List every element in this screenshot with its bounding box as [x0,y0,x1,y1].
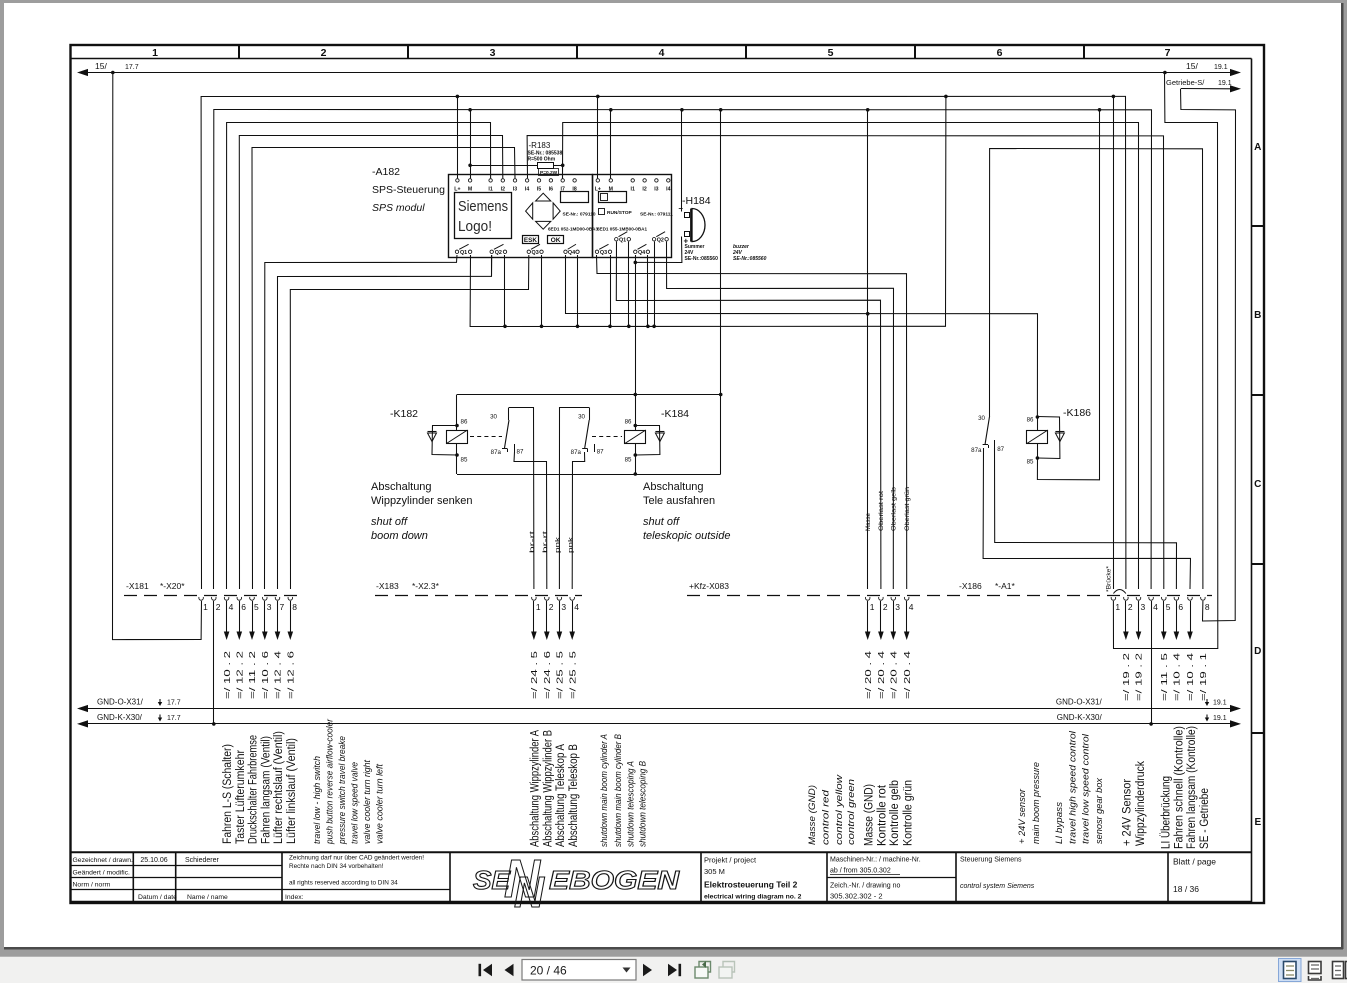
svg-text:SE-Nr.:085560: SE-Nr.:085560 [685,256,719,262]
X186 wire arrows down [1125,601,1127,632]
svg-text:Abschaltung Wippzylinder A: Abschaltung Wippzylinder A [530,730,542,847]
svg-text:=/ 10 . 2: =/ 10 . 2 [223,651,232,699]
svg-text:4: 4 [229,602,234,612]
svg-text:30: 30 [978,415,985,422]
wire K186 87 to X186:6 [995,448,1177,589]
toolbar previous page button [505,964,514,976]
terminal X183:4 [570,597,575,600]
wire L+2 pin riser [597,96,599,178]
svg-text:Siemens: Siemens [458,199,508,215]
svg-text:Kontrolle grün: Kontrolle grün [902,780,914,846]
svg-text:control system Siemens: control system Siemens [960,883,1035,890]
wire Masse from M bus to X083:1 [867,110,869,589]
node Masse drop [866,312,870,316]
svg-text:Oberlast rot: Oberlast rot [878,491,885,531]
toolbar first page button [479,964,482,976]
svg-text:Index:: Index: [285,894,304,901]
node X186:1 drop [1112,95,1116,99]
svg-text:Oberlast gelb: Oberlast gelb [890,486,897,531]
svg-text:Abschaltung Wippzylinder B: Abschaltung Wippzylinder B [542,730,554,847]
svg-text:E: E [1254,817,1261,828]
terminal X186:4 [1149,597,1154,600]
OK button [548,236,564,244]
toolbar background [0,950,1347,957]
node L+ module1 [456,95,460,99]
svg-text:I2: I2 [642,187,646,193]
toolbar last page button [668,964,677,976]
svg-text:SE - Getriebe: SE - Getriebe [1199,788,1211,849]
svg-text:I1: I1 [631,187,635,193]
wire bus I4 to X186:5 [527,136,1164,590]
module2 output Q1 [615,238,618,241]
wire L+1 pin riser [457,96,459,178]
relay rails [457,394,721,396]
svg-text:Norm / norm: Norm / norm [73,882,111,889]
PLC module2 top pins L+ M I1-I4 [596,179,599,182]
terminal X186:8 [1201,597,1206,600]
wire X181:6 to input I2 [239,136,503,590]
svg-text:=/ 20 . 4: =/ 20 . 4 [903,650,912,699]
svg-text:=/ 24 . 5: =/ 24 . 5 [530,650,539,699]
X183 wire arrows down [533,601,535,632]
svg-text:6: 6 [997,47,1003,59]
wire Q4a to Masse bus [566,255,1038,417]
svg-text:LI Überbrückung: LI Überbrückung [1161,776,1173,849]
terminal X181:4 [224,597,229,600]
terminal X181:5 [250,597,255,600]
svg-text:Zeich.-Nr. / drawing no: Zeich.-Nr. / drawing no [830,883,901,890]
svg-text:30: 30 [578,414,585,421]
svg-text:Abschaltung: Abschaltung [643,481,704,493]
page layout two-up [1333,962,1344,979]
toolbar previous view button [695,961,711,978]
svg-text:Datum / date: Datum / date [138,894,177,901]
svg-text:pnk: pnk [555,536,562,553]
svg-text:-A182: -A182 [372,166,400,178]
wire X181:5 to input I3 [252,148,515,590]
wire Q1b to 0V collector bus start [470,96,946,326]
relay K184 coil [625,431,646,444]
svg-text:5: 5 [828,47,834,59]
wire M2 pin riser [610,110,612,179]
svg-text:5: 5 [1166,602,1171,612]
svg-text:shutdown main boom cylinder A: shutdown main boom cylinder A [599,734,609,847]
terminal X186:5 [1162,597,1167,600]
svg-text:Gezeichnet / drawn.: Gezeichnet / drawn. [73,857,134,864]
diode K184 [635,426,660,456]
svg-text:I5: I5 [537,187,541,193]
svg-text:Fahren langsam (Kontrolle): Fahren langsam (Kontrolle) [1186,726,1198,849]
svg-text:travel low speed control: travel low speed control [1081,733,1091,844]
diode K186 [1037,417,1060,459]
node L+ riser x946 [944,95,948,99]
wire GND-K-X30 rail [88,723,1233,725]
svg-text:shut off: shut off [371,516,408,528]
bridge X186 1-2 [1113,590,1126,594]
frame outer border [71,45,1265,903]
svg-text:Lüfter linkslauf (Ventil): Lüfter linkslauf (Ventil) [286,738,298,844]
wire GND-O-X31 rail [88,708,1233,710]
svg-text:boom down: boom down [371,530,428,542]
svg-text:30: 30 [490,414,497,421]
svg-text:Steuerung Siemens: Steuerung Siemens [960,857,1022,864]
svg-text:=/ 24 . 6: =/ 24 . 6 [543,651,552,699]
svg-text:Lüfter rechtslauf (Ventil): Lüfter rechtslauf (Ventil) [273,731,285,844]
wire K184 87a to X183:4 [572,452,585,589]
svg-text:Wippzylinderdruck: Wippzylinderdruck [1135,761,1147,846]
buzzer H184 symbol [692,209,705,242]
svg-text:305.302.302 - 2: 305.302.302 - 2 [830,892,883,901]
svg-text:valve cooler turn left: valve cooler turn left [375,764,385,844]
wire I7 pin riser [562,165,564,178]
svg-text:Q2: Q2 [495,250,502,256]
svg-text:shutdown main boom cylinder B: shutdown main boom cylinder B [613,734,623,847]
wire module2 Q4a down to relay rail and K184 coil [635,255,637,474]
svg-text:=/ 12 . 6: =/ 12 . 6 [287,651,296,699]
svg-text:=/ 10 . 4: =/ 10 . 4 [1186,652,1195,701]
PLC module1 top pins L+ M I1-I8 [456,179,459,182]
wire Q3b to collector [541,255,543,326]
module1 output Q1 [455,250,458,253]
title block grid [71,851,1252,853]
svg-text:D: D [1254,646,1261,657]
svg-text:Abschaltung Teleskop A: Abschaltung Teleskop A [555,744,567,847]
svg-text:3: 3 [895,602,900,612]
svg-text:I6: I6 [549,187,553,193]
svg-text:*-X20*: *-X20* [160,581,185,591]
terminal X083:2 [879,597,884,600]
svg-text:3: 3 [490,47,496,59]
svg-text:Logo!: Logo! [458,219,492,235]
svg-text:85: 85 [625,457,632,464]
svg-text:87a: 87a [491,449,502,456]
module1 output Q3 [527,250,530,253]
svg-text:teleskopic outside: teleskopic outside [643,530,730,542]
svg-text:GND-K-X30/: GND-K-X30/ [1057,713,1103,722]
svg-text:87: 87 [997,446,1004,453]
svg-text:I3: I3 [654,187,658,193]
terminal X181:8 [288,597,293,600]
Sennebogen logo [473,849,680,917]
toolbar page number combo [522,960,636,981]
svg-text:electrical wiring diagram no.: electrical wiring diagram no. 2 [704,894,802,901]
svg-text:A: A [1254,142,1261,153]
svg-text:1: 1 [152,47,158,59]
svg-text:SE-Nr.: 079111: SE-Nr.: 079111 [640,212,673,218]
svg-text:1: 1 [536,602,541,612]
keypad arrows [536,193,551,201]
svg-text:Maschinen-Nr.: / machine-Nr.: Maschinen-Nr.: / machine-Nr. [830,857,921,864]
svg-text:=/ 25 . 5: =/ 25 . 5 [568,650,577,699]
svg-text:305 M: 305 M [704,867,725,876]
terminal X183:3 [557,597,562,600]
wire M1 pin riser [470,110,472,179]
svg-text:control green: control green [846,779,856,845]
module1 display window [561,192,589,203]
wire module2 Q4b to collector [647,255,649,326]
svg-text:*Brücke*: *Brücke* [1106,565,1113,592]
svg-text:valve cooler turn right: valve cooler turn right [362,760,372,844]
Siemens Logo! label box [455,193,512,239]
svg-text:I2: I2 [501,187,505,193]
svg-text:17.7: 17.7 [125,64,139,71]
svg-text:-R183: -R183 [529,141,551,150]
svg-text:Oberlast grün: Oberlast grün [904,486,911,531]
wire bus K186 contact 30 to X186:8 [990,149,1203,590]
module2 output Q2 [652,238,655,241]
svg-text:Fahren schnell (Kontrolle): Fahren schnell (Kontrolle) [1174,726,1186,849]
svg-text:17.7: 17.7 [167,700,181,707]
svg-text:+ 24V Sensor: + 24V Sensor [1121,779,1133,846]
svg-text:push button reverse airflow-co: push button reverse airflow-cooler [324,718,334,845]
svg-text:OK: OK [551,237,561,244]
node H184+/Q4 junction [634,261,638,265]
terminal X083:3 [891,597,896,600]
wire module2 Q2b to Oberlast gelb bus [667,242,894,590]
svg-text:*-A1*: *-A1* [995,581,1016,591]
resistor R183 body [470,165,538,167]
svg-text:control red: control red [821,789,831,845]
wire module2 Q3a to Oberlast gruen bus [597,255,907,589]
svg-text:6ED1 055-1MB00-0BA1: 6ED1 055-1MB00-0BA1 [597,227,647,232]
svg-text:+ 24V sensor: + 24V sensor [1017,788,1027,844]
svg-text:-X183: -X183 [376,581,399,591]
svg-text:8: 8 [292,602,297,612]
wire X186:4 to GND rail [1151,601,1153,724]
svg-text:Druckschalter Fahrbremse: Druckschalter Fahrbremse [248,735,260,844]
contact K182 (30/87a/87) [509,408,534,590]
svg-text:6: 6 [1178,602,1183,612]
wire X181:3 to output Q1a [265,255,458,589]
wire Q2b to collector [504,255,506,326]
svg-text:17.7: 17.7 [167,715,181,722]
terminal X181:2 [211,597,216,600]
relay K182 coil [456,395,458,475]
wire module2 Q1b to collector [628,242,630,327]
svg-text:Abschaltung Teleskop B: Abschaltung Teleskop B [568,744,580,847]
svg-text:main boom pressure: main boom pressure [1031,762,1041,844]
wire +15 feed down right side to X186:1 [1113,73,1217,649]
page layout single (active) [1279,959,1302,982]
svg-text:=/ 19 . 1: =/ 19 . 1 [1199,653,1208,701]
node M module2 [609,108,613,112]
svg-text:SE-Nr.: 079110: SE-Nr.: 079110 [563,212,596,218]
svg-text:Schiederer: Schiederer [185,857,220,864]
svg-text:N: N [514,868,545,917]
terminal X186:7 [1188,597,1193,600]
svg-text:19.1: 19.1 [1213,700,1227,707]
svg-text:pnk: pnk [568,536,575,553]
svg-text:4: 4 [574,602,579,612]
svg-text:Q1: Q1 [619,237,626,243]
svg-text:3: 3 [1141,602,1146,612]
svg-text:senosr gear box: senosr gear box [1094,777,1104,844]
svg-text:L+: L+ [454,187,460,193]
svg-text:85: 85 [461,457,468,464]
wire H184 minus to M bus [681,110,683,212]
terminal X181:3 [263,597,268,600]
svg-text:Q3: Q3 [532,250,539,256]
node L+ module2 [596,95,600,99]
svg-text:Getriebe-S/: Getriebe-S/ [1166,78,1205,87]
svg-text:Fahren langsam (Ventil): Fahren langsam (Ventil) [260,736,272,844]
svg-text:I4: I4 [666,187,670,193]
relay K186 coil [1036,415,1040,419]
svg-text:all rights reserved according: all rights reserved according to DIN 34 [289,880,398,887]
svg-text:6ED1 052-1MD00-0BA3: 6ED1 052-1MD00-0BA3 [548,227,598,232]
X083 wire arrows down [867,601,869,632]
svg-text:=/ 12 . 4: =/ 12 . 4 [274,650,283,699]
svg-text:=/ 20 . 4: =/ 20 . 4 [864,650,873,699]
node +15 to X181:1 [111,71,115,75]
svg-text:2: 2 [216,602,221,612]
svg-text:Masse: Masse [865,512,872,531]
svg-text:1: 1 [870,602,875,612]
node M to H184- [680,108,684,112]
node M module1 [468,108,472,112]
terminal X186:3 [1136,597,1141,600]
svg-text:*-X2.3*: *-X2.3* [412,581,440,591]
svg-text:5: 5 [254,602,259,612]
wire K182 87 to X183:2 [514,452,547,589]
svg-text:Q3: Q3 [600,250,607,256]
X181 wire arrows down [226,601,228,632]
svg-text:ab / from 305.0.302: ab / from 305.0.302 [830,868,891,875]
wire X181:2 to GND rail [213,601,215,724]
terminal X186:6 [1174,597,1179,600]
svg-text:2: 2 [321,47,327,59]
svg-text:1: 1 [1115,602,1120,612]
svg-text:br-rt: br-rt [529,531,536,553]
svg-text:=/ 10 . 4: =/ 10 . 4 [1173,652,1182,701]
svg-text:86: 86 [625,419,632,426]
svg-text:15/: 15/ [95,61,107,71]
svg-text:GND-O-X31/: GND-O-X31/ [97,698,144,707]
svg-text:I3: I3 [513,187,517,193]
svg-text:=/ 10 . 6: =/ 10 . 6 [261,651,270,699]
svg-text:GND-O-X31/: GND-O-X31/ [1056,698,1103,707]
terminal X186:2 [1124,597,1129,600]
svg-text:EBOGEN: EBOGEN [549,865,680,895]
svg-text:85: 85 [1027,459,1034,466]
svg-text:Kontrolle rot: Kontrolle rot [877,784,889,846]
svg-text:2: 2 [549,602,554,612]
svg-text:=/ 12 . 2: =/ 12 . 2 [236,651,245,699]
svg-text:-K186: -K186 [1063,407,1091,419]
svg-text:=/ 11 . 5: =/ 11 . 5 [1160,652,1169,701]
terminal X181:7 [275,597,280,600]
toolbar next page button [643,964,652,976]
svg-text:87a: 87a [971,447,982,454]
svg-text:shutdown telescoping A: shutdown telescoping A [626,761,636,847]
contact K186 (30/87a/87) [985,416,990,444]
svg-text:=/ 25 . 5: =/ 25 . 5 [556,650,565,699]
svg-text:SPS-Steuerung: SPS-Steuerung [372,184,445,196]
diode K182 [432,426,457,456]
wire module2 Q1a to Oberlast rot bus [616,242,881,590]
node M to K182/K184 return [719,108,723,112]
module1 output Q4 [564,250,567,253]
svg-text:SPS modul: SPS modul [372,202,425,214]
module2 output Q3 [595,250,598,253]
RUN/STOP switch [599,209,605,215]
svg-text:Abschaltung: Abschaltung [371,481,432,493]
resistor R183 power rating [539,169,559,176]
svg-text:M: M [468,187,472,193]
wire module2 Q2a to collector [654,242,656,327]
svg-text:3: 3 [267,602,272,612]
svg-text:6: 6 [241,602,246,612]
wire X181:7 to output Q2a [278,255,492,589]
svg-text:shut off: shut off [643,516,680,528]
module1 output Q2 [490,250,493,253]
svg-text:C: C [1254,479,1261,490]
svg-text:2: 2 [1128,602,1133,612]
svg-text:LI bypass: LI bypass [1054,801,1064,844]
svg-text:br-rt: br-rt [542,531,549,553]
contact K184 (30/87a/87) [559,408,589,590]
svg-text:19.1: 19.1 [1213,715,1227,722]
wire Q2a to X181:7 drop [491,255,493,276]
svg-text:B: B [1254,310,1261,321]
terminal X186:1 [1111,597,1116,600]
wire X181:8 to output Q3a [290,255,529,589]
frame row-letter strip [1251,59,1253,904]
mechanical link K184 [592,436,622,438]
svg-text:Q4: Q4 [568,250,575,256]
svg-text:-X186: -X186 [959,581,982,591]
svg-text:25.10.06: 25.10.06 [140,857,167,864]
wire K186 87a to X186:7 [983,448,1190,589]
svg-text:+Kfz-X083: +Kfz-X083 [689,581,729,591]
svg-text:-K182: -K182 [390,408,418,420]
svg-text:Masse (GND): Masse (GND) [807,785,817,845]
wire module2 Q3b to collector [610,255,612,326]
svg-text:Q2: Q2 [657,237,664,243]
svg-text:pressure switch travel breake: pressure switch travel breake [337,736,347,845]
svg-text:Zeichnung darf nur über CAD g: Zeichnung darf nur über CAD geändert wer… [289,855,424,862]
svg-text:R=500 Ohm: R=500 Ohm [528,156,556,162]
svg-text:SE-Nr.:085560: SE-Nr.:085560 [733,256,767,262]
svg-text:GND-K-X30/: GND-K-X30/ [97,713,143,722]
svg-text:Q1: Q1 [460,250,467,256]
svg-text:86: 86 [1027,417,1034,424]
ESK button [523,236,539,244]
frame column-number strip [71,58,1252,60]
wire H184 plus down [635,237,682,263]
svg-text:RUN/STOP: RUN/STOP [607,210,632,216]
svg-text:87: 87 [597,449,604,456]
svg-text:shutdown telescoping B: shutdown telescoping B [638,761,648,847]
svg-text:4: 4 [1153,602,1158,612]
svg-text:Wippzylinder senken: Wippzylinder senken [371,495,473,507]
svg-text:19.1: 19.1 [1214,64,1228,71]
svg-text:I4: I4 [525,187,529,193]
svg-text:-K184: -K184 [661,408,689,420]
svg-text:86: 86 [461,419,468,426]
wire X181:1 lower loop to +15 [113,73,202,640]
svg-text:4: 4 [909,602,914,612]
svg-text:travel high speed control: travel high speed control [1068,730,1078,844]
svg-text:=/ 19 . 2: =/ 19 . 2 [1135,653,1144,701]
svg-text:Elektrosteuerung Teil 2: Elektrosteuerung Teil 2 [704,880,798,890]
svg-text:-X181: -X181 [126,581,149,591]
svg-text:Masse (GND): Masse (GND) [863,784,875,846]
wire X186:1 riser [1113,96,1115,589]
svg-text:travel low speed valve: travel low speed valve [350,762,360,844]
svg-text:2: 2 [883,602,888,612]
wire bus L+ (X181:1 to modules) [201,96,1126,589]
